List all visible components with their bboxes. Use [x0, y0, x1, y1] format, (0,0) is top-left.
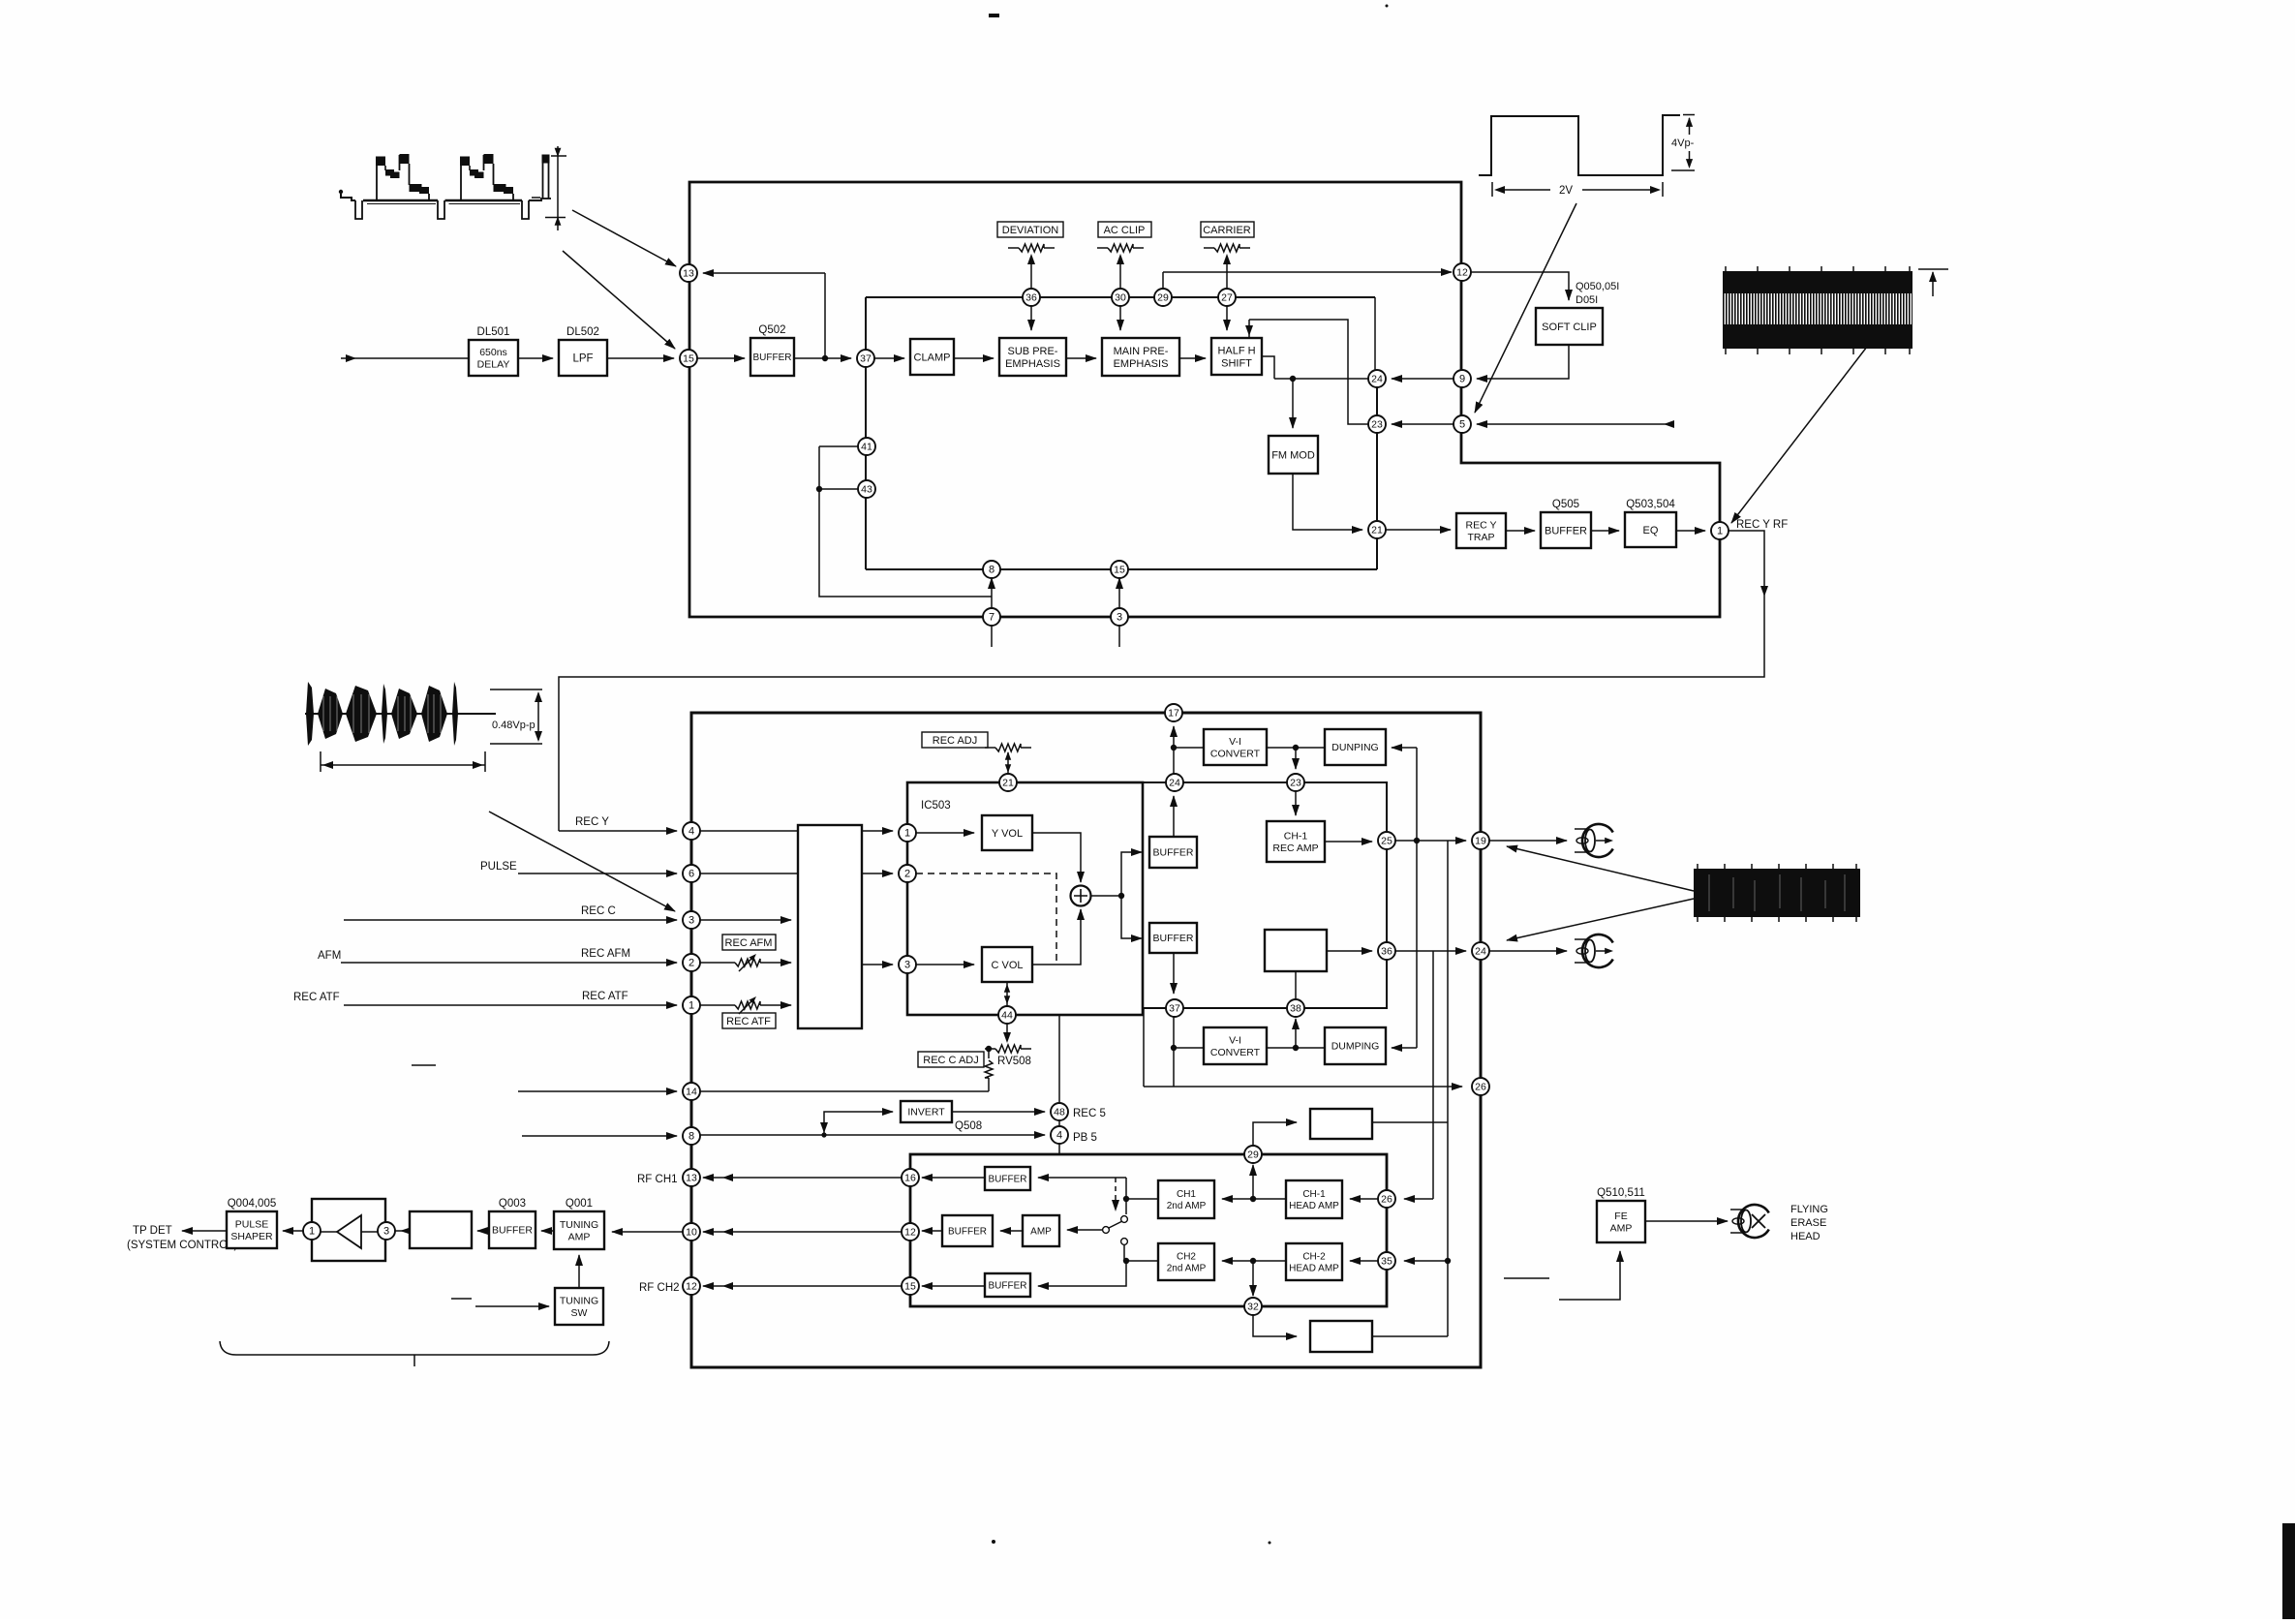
- svg-text:SW: SW: [571, 1307, 588, 1319]
- svg-text:REC AFM: REC AFM: [725, 937, 773, 949]
- wire Y VOL to adder: [1032, 833, 1081, 882]
- wire pin26 to head amp: [1350, 1198, 1378, 1200]
- svg-text:BUFFER: BUFFER: [753, 352, 792, 363]
- pin 3 top block: [1111, 608, 1128, 626]
- svg-text:BUFFER: BUFFER: [948, 1227, 987, 1238]
- svg-text:2: 2: [688, 958, 694, 969]
- svg-text:2nd AMP: 2nd AMP: [1167, 1201, 1207, 1211]
- wire clamp to sub pre-emphasis: [954, 357, 994, 359]
- pulse shaper Q004,005 box: [227, 1211, 277, 1248]
- svg-text:19: 19: [1475, 836, 1486, 847]
- wire pin10 to tuning amp: [612, 1231, 683, 1233]
- svg-text:INVERT: INVERT: [907, 1107, 945, 1118]
- wire pin3 to triangle: [361, 1231, 378, 1233]
- pin 10 lower block: [683, 1223, 700, 1241]
- wire PULSE into pin 6: [518, 873, 677, 874]
- pin 43 top block: [858, 480, 875, 498]
- wire IC pin3 to C VOL: [916, 964, 974, 965]
- svg-text:15: 15: [904, 1281, 916, 1293]
- svg-text:EMPHASIS: EMPHASIS: [1114, 358, 1169, 370]
- svg-text:Q510,511: Q510,511: [1597, 1187, 1645, 1199]
- svg-text:DL501: DL501: [477, 326, 510, 338]
- wire junction up to pin 17: [1173, 726, 1175, 748]
- svg-text:REC ATF: REC ATF: [293, 992, 340, 1003]
- wire pin up to CARRIER pot: [1226, 258, 1228, 289]
- wire into pin 14: [518, 1090, 677, 1092]
- wire pin9 to pin24: [1392, 378, 1453, 380]
- wire bus pins 24 23 21: [1376, 379, 1378, 569]
- wire 15 to RF CH2 pin 12: [703, 1285, 902, 1287]
- flying erase head: [1738, 1205, 1769, 1238]
- svg-text:Q505: Q505: [1552, 499, 1579, 510]
- wire to pin 26: [1144, 1086, 1462, 1088]
- pin 6 lower block: [683, 865, 700, 882]
- wire junction up to pin 29: [1252, 1165, 1254, 1199]
- wire sub to main pre-emphasis: [1066, 357, 1096, 359]
- svg-text:REC AFM: REC AFM: [581, 948, 630, 960]
- wire bus down to 26 line: [1143, 1008, 1145, 1087]
- wire pin21 to rec y trap: [1386, 529, 1451, 531]
- wire FM MOD to pin 21: [1293, 474, 1362, 530]
- svg-text:13: 13: [683, 268, 694, 280]
- svg-text:Q502: Q502: [758, 324, 785, 336]
- callout diagonal to pin 5: [1475, 203, 1576, 413]
- svg-text:DELAY: DELAY: [477, 358, 510, 370]
- waveform sync dip 2: [438, 200, 444, 219]
- svg-text:650ns: 650ns: [479, 347, 507, 358]
- svg-text:AMP: AMP: [1610, 1222, 1633, 1234]
- pin 29 top block: [1154, 289, 1172, 306]
- wire loop 23 to halfH: [1249, 320, 1368, 424]
- pin 8 lower block: [683, 1127, 700, 1145]
- svg-text:TRAP: TRAP: [1467, 532, 1494, 543]
- wire pin30 down to main pre-emphasis: [1119, 306, 1121, 330]
- svg-text:37: 37: [860, 353, 872, 365]
- wire junction up to pin13 feedback: [824, 273, 826, 358]
- wire tuning amp to buffer: [541, 1230, 554, 1232]
- pin 3 lower block: [899, 956, 916, 973]
- pin 35 lower block: [1378, 1252, 1395, 1270]
- svg-text:23: 23: [1290, 778, 1301, 789]
- svg-text:REC 5: REC 5: [1073, 1108, 1106, 1119]
- svg-text:PULSE: PULSE: [235, 1218, 268, 1230]
- REC Y TRAP box: [1456, 513, 1506, 548]
- svg-text:HALF H: HALF H: [1217, 345, 1255, 356]
- svg-text:CH2: CH2: [1177, 1252, 1196, 1263]
- svg-text:24: 24: [1169, 778, 1180, 789]
- wire V-I out: [1267, 747, 1296, 749]
- svg-text:CH-2: CH-2: [1302, 1252, 1326, 1263]
- svg-text:DUMPING: DUMPING: [1331, 1041, 1380, 1053]
- wire buffer mid to pin 12: [922, 1230, 942, 1232]
- svg-text:TP DET: TP DET: [133, 1225, 172, 1237]
- wire C VOL to pin 44: [1006, 982, 1008, 1006]
- svg-text:1: 1: [309, 1226, 315, 1238]
- pin 32 lower block: [1244, 1298, 1262, 1315]
- pin 24 lower block: [1166, 774, 1183, 791]
- svg-text:CH-1: CH-1: [1284, 830, 1308, 842]
- svg-text:15: 15: [683, 353, 694, 365]
- wire feedback into DUMPING lower: [1392, 1047, 1417, 1049]
- svg-text:BUFFER: BUFFER: [1545, 525, 1587, 536]
- svg-text:3: 3: [1117, 612, 1122, 624]
- wire DL501 to DL502: [518, 357, 553, 359]
- CH1 2nd amp box: [1158, 1180, 1214, 1218]
- trimmer pot DEVIATION: [1008, 247, 1019, 249]
- wire bus 21 24 23: [907, 781, 1388, 783]
- svg-text:FE: FE: [1614, 1210, 1627, 1222]
- LPF DL502 box: [559, 340, 607, 376]
- pin 44 lower block: [998, 1006, 1016, 1024]
- wire REC C into pin 3: [344, 919, 677, 921]
- svg-text:6: 6: [688, 869, 694, 880]
- pin 24 lower block: [1472, 942, 1489, 960]
- svg-text:(SYSTEM CONTROL): (SYSTEM CONTROL): [127, 1240, 238, 1251]
- svg-text:48: 48: [1054, 1107, 1065, 1118]
- pin 1 lower block: [899, 824, 916, 842]
- svg-text:EQ: EQ: [1643, 525, 1659, 536]
- FM RF waveform block: [1723, 271, 1912, 294]
- svg-text:38: 38: [1290, 1003, 1301, 1015]
- wire pin37 down: [1173, 1017, 1175, 1087]
- wire pin19 to head 1: [1489, 840, 1567, 842]
- wire pin27 down to half h shift: [1226, 306, 1228, 330]
- wire buffer to empty box: [477, 1230, 489, 1232]
- wire into sub pin 35: [1404, 1260, 1448, 1262]
- svg-text:3: 3: [904, 960, 910, 971]
- pin 36 top block: [1023, 289, 1040, 306]
- dash mark: [412, 1064, 436, 1066]
- svg-text:RV508: RV508: [997, 1056, 1031, 1067]
- svg-text:ERASE: ERASE: [1790, 1217, 1826, 1229]
- pin 38 lower block: [1287, 999, 1304, 1017]
- wire pin41 left: [819, 445, 858, 447]
- SOFT CLIP box: [1536, 308, 1603, 345]
- CH2 2nd amp box: [1158, 1243, 1214, 1280]
- waveform staircase cycle 1: [376, 158, 378, 200]
- svg-text:9: 9: [1459, 374, 1465, 385]
- svg-text:Q003: Q003: [499, 1198, 526, 1210]
- video head CH-1: [1582, 824, 1613, 857]
- pin 3 lower block: [683, 911, 700, 929]
- pin 30 top block: [1112, 289, 1129, 306]
- pin 3 detector: [378, 1222, 395, 1240]
- dimension 4Vp-: [1683, 114, 1695, 116]
- trimmer REC ADJ: [985, 747, 995, 749]
- RF envelope burst block: [1694, 869, 1860, 917]
- waveform baseline lead: [341, 193, 355, 200]
- callout diagonal to REC C pin 3: [489, 812, 675, 911]
- svg-text:Q050,05I: Q050,05I: [1576, 281, 1619, 292]
- label REC ADJ: [922, 732, 988, 748]
- CLAMP box: [910, 339, 954, 375]
- wire junction to V-I lower: [1174, 1047, 1204, 1049]
- pin 29 lower block: [1244, 1146, 1262, 1163]
- wire pin1 lead: [700, 1004, 724, 1006]
- wire pin24 up to junction: [1173, 748, 1175, 774]
- pin 13 lower block: [683, 1169, 700, 1186]
- pin 2 lower block: [899, 865, 916, 882]
- svg-text:1: 1: [688, 1000, 694, 1012]
- wire pin36 to pin24: [1395, 950, 1466, 952]
- svg-text:2nd AMP: 2nd AMP: [1167, 1264, 1207, 1274]
- svg-text:C VOL: C VOL: [991, 960, 1023, 971]
- svg-text:Q508: Q508: [955, 1120, 982, 1132]
- svg-text:37: 37: [1169, 1003, 1180, 1015]
- svg-text:CARRIER: CARRIER: [1203, 225, 1251, 236]
- svg-text:21: 21: [1371, 525, 1383, 536]
- wire empty box to pin 36: [1327, 950, 1372, 952]
- pin 37 lower block: [1166, 999, 1183, 1017]
- DUMPING lower box: [1325, 1027, 1386, 1064]
- waveform sync dip 1: [355, 200, 362, 219]
- svg-text:17: 17: [1168, 708, 1179, 720]
- callout diagonal RF to pin 24: [1507, 899, 1694, 940]
- delay DL501 box: [469, 340, 518, 376]
- svg-text:3: 3: [383, 1226, 389, 1238]
- wire pin43 left: [819, 488, 858, 490]
- wire into pin 5 from right: [1477, 423, 1674, 425]
- callout diagonal to pin 1: [1731, 322, 1886, 523]
- buffer RF2 box: [985, 1273, 1030, 1297]
- svg-text:Q001: Q001: [566, 1198, 593, 1210]
- pin 21 top block: [1368, 521, 1386, 538]
- pin 13 top block: [680, 264, 697, 282]
- wire pin8 to PB 5: [700, 1134, 1045, 1136]
- svg-text:DL502: DL502: [566, 326, 599, 338]
- pin 2 lower block: [683, 954, 700, 971]
- wire REC Y into pin 4: [559, 830, 677, 832]
- trimmer REC AFM: [724, 962, 735, 964]
- wire vertical B: [1447, 841, 1449, 1336]
- svg-text:36: 36: [1025, 292, 1037, 304]
- wire pin12 to soft clip: [1471, 272, 1569, 300]
- wire box2 out: [1372, 1335, 1448, 1337]
- wire pin up to AC CLIP pot: [1119, 258, 1121, 289]
- wire vertical A: [1432, 951, 1434, 1199]
- wire matrix to IC503 pin3: [862, 964, 893, 965]
- buffer lower box: [1149, 923, 1197, 953]
- wire into sub pin 26: [1404, 1198, 1433, 1200]
- svg-text:REC C ADJ: REC C ADJ: [923, 1055, 978, 1066]
- svg-text:BUFFER: BUFFER: [492, 1225, 533, 1237]
- tuning switch box: [555, 1288, 603, 1325]
- wire pin44 row: [907, 1014, 1059, 1016]
- waveform period dimension: [321, 764, 485, 766]
- pin 12 lower block: [683, 1277, 700, 1295]
- wire V-I lower out: [1267, 1047, 1296, 1049]
- DUNPING upper box: [1325, 729, 1386, 765]
- wire pot to pin21: [1007, 752, 1009, 774]
- wire loop down to pin 8: [819, 446, 992, 597]
- wire dashed PB path: [916, 873, 1056, 965]
- pin 15 top block: [680, 350, 697, 367]
- pin 1 lower block: [683, 996, 700, 1014]
- svg-text:FM MOD: FM MOD: [1271, 449, 1315, 461]
- waveform amplitude dimension: [551, 155, 566, 157]
- svg-text:Q503,504: Q503,504: [1626, 499, 1675, 510]
- svg-text:AFM: AFM: [318, 950, 341, 962]
- pin 12 top block: [1453, 263, 1471, 281]
- pin 16 lower block: [902, 1169, 919, 1186]
- detector empty box: [410, 1211, 472, 1248]
- wire head amp to CH2 2nd amp: [1222, 1260, 1286, 1262]
- V-I convert upper box: [1204, 729, 1267, 765]
- svg-text:BUFFER: BUFFER: [989, 1281, 1027, 1292]
- svg-text:3: 3: [688, 915, 694, 927]
- svg-text:PULSE: PULSE: [480, 861, 517, 873]
- wire stub below pin 7: [991, 626, 993, 647]
- pin 4 lower block: [1051, 1126, 1068, 1144]
- callout diagonal waveform to pin 13: [572, 210, 676, 266]
- Y VOL box: [982, 815, 1032, 850]
- buffer RF mid box: [942, 1215, 993, 1246]
- wire vertical bus through 37 41 43: [865, 297, 867, 569]
- resistor RV508 leg: [985, 1060, 993, 1078]
- wire pin bus 36 30 29 27: [866, 296, 1375, 298]
- svg-text:SOFT CLIP: SOFT CLIP: [1542, 322, 1597, 333]
- wire empty box to pin 3: [401, 1230, 410, 1232]
- CH-1 head amp box: [1286, 1180, 1342, 1218]
- wire stub below pin 3: [1118, 626, 1120, 647]
- svg-text:12: 12: [686, 1281, 697, 1293]
- svg-text:Y VOL: Y VOL: [992, 828, 1023, 840]
- IC501 top block outline: [689, 182, 1720, 617]
- wire pin24 to head 2: [1489, 950, 1567, 952]
- svg-text:21: 21: [1002, 778, 1014, 789]
- IC503 box: [907, 782, 1143, 1015]
- FM MOD box: [1269, 436, 1318, 474]
- wire pin29 to rotary box1: [1253, 1122, 1297, 1146]
- wire switch to amp: [1067, 1229, 1102, 1231]
- buffer Q003 box: [489, 1211, 535, 1248]
- wire junction to dunping: [1296, 747, 1325, 749]
- wire feedback into pin 13: [703, 272, 825, 274]
- wire pin29 up: [1162, 272, 1164, 289]
- wire pin29 to pin12: [1163, 271, 1452, 273]
- svg-text:REC Y: REC Y: [1466, 519, 1497, 531]
- waveform baseline: [305, 713, 496, 715]
- wire 12 to pin 10: [703, 1231, 902, 1233]
- svg-text:DUNPING: DUNPING: [1331, 742, 1378, 753]
- callout diagonal waveform to pin 15: [563, 251, 675, 349]
- wire REC AFM into pin 2: [341, 962, 677, 964]
- trimmer pot CARRIER: [1204, 247, 1214, 249]
- svg-text:1: 1: [1717, 526, 1723, 537]
- svg-text:REC AMP: REC AMP: [1272, 843, 1318, 854]
- wire tuning sw to tuning amp: [578, 1255, 580, 1288]
- wire to pin 24: [1274, 378, 1368, 380]
- dimension 2V: [1491, 182, 1493, 197]
- wire junction down to pin 23: [1295, 748, 1297, 769]
- label REC C ADJ: [918, 1052, 984, 1067]
- wire triangle to pin1: [321, 1231, 337, 1233]
- callout diagonal RF to pin 19: [1507, 846, 1694, 891]
- pin 19 lower block: [1472, 832, 1489, 849]
- wire pin36 down to sub pre-emphasis: [1030, 306, 1032, 330]
- pin 15 lower block: [902, 1277, 919, 1295]
- svg-text:24: 24: [1475, 946, 1486, 958]
- wire INVERT to REC 5: [952, 1111, 1045, 1113]
- pin 9 top block: [1453, 370, 1471, 387]
- rotary transformer box1: [1310, 1109, 1372, 1139]
- svg-text:TUNING: TUNING: [560, 1295, 598, 1306]
- pin 24 top block: [1368, 370, 1386, 387]
- pin 41 top block: [858, 438, 875, 455]
- wire buffer RF2 to pin 15: [922, 1285, 985, 1287]
- buffer Q502 box: [750, 338, 794, 376]
- svg-text:24: 24: [1371, 374, 1383, 385]
- wire amp to buffer mid: [1000, 1230, 1023, 1232]
- trimmer RV508: [985, 1048, 995, 1050]
- waveform baseline end: [529, 199, 542, 201]
- pin 48 lower block: [1051, 1103, 1068, 1120]
- wire pin7 up: [991, 597, 993, 608]
- svg-text:HEAD AMP: HEAD AMP: [1289, 1201, 1339, 1211]
- rotary transformer box2: [1310, 1321, 1372, 1352]
- svg-text:36: 36: [1381, 946, 1392, 958]
- C VOL box: [982, 947, 1032, 982]
- wire bus down to pin 24: [1374, 297, 1376, 379]
- svg-text:AMP: AMP: [568, 1231, 591, 1242]
- svg-text:TUNING: TUNING: [560, 1219, 598, 1231]
- wire pin32 to rotary box2: [1253, 1315, 1297, 1336]
- svg-text:15: 15: [1114, 565, 1125, 576]
- CH-2 head amp box: [1286, 1243, 1342, 1280]
- wire buffer to pin 37: [794, 357, 851, 359]
- svg-text:MAIN PRE-: MAIN PRE-: [1114, 346, 1169, 357]
- svg-text:Q004,005: Q004,005: [228, 1198, 277, 1210]
- svg-text:HEAD AMP: HEAD AMP: [1289, 1264, 1339, 1274]
- wire pin6 to IC503 pin2: [700, 873, 893, 874]
- wire pin4 to IC503 pin1: [700, 830, 893, 832]
- dash mark: [451, 1298, 472, 1300]
- svg-text:16: 16: [904, 1173, 916, 1184]
- wire pin up to DEVIATION pot: [1030, 258, 1032, 289]
- wire pin2 lead: [700, 962, 724, 964]
- svg-text:REC ATF: REC ATF: [726, 1016, 771, 1027]
- trimmer REC ATF: [724, 1004, 735, 1006]
- pin 15 top block: [1111, 561, 1128, 578]
- svg-text:29: 29: [1157, 292, 1169, 304]
- wire junction to V-I convert: [1174, 747, 1204, 749]
- pin 21 lower block: [999, 774, 1017, 791]
- svg-text:35: 35: [1381, 1256, 1392, 1268]
- mixer empty box: [1265, 930, 1327, 971]
- wire CH2 2nd amp out: [1126, 1260, 1158, 1262]
- svg-text:4: 4: [688, 826, 694, 838]
- wire junction down to FM MOD: [1292, 379, 1294, 428]
- svg-text:RF CH1: RF CH1: [637, 1174, 678, 1185]
- label REC AFM: [722, 935, 776, 950]
- wire pin5 to pin23: [1392, 423, 1453, 425]
- svg-text:25: 25: [1381, 836, 1392, 847]
- wire trap to buffer Q505: [1506, 530, 1535, 532]
- wire C VOL to adder: [1032, 909, 1081, 965]
- head switching sub box: [910, 1154, 1387, 1306]
- pin 36 lower block: [1378, 942, 1395, 960]
- pin 1 top block: [1711, 522, 1729, 539]
- trimmer pot AC CLIP: [1097, 247, 1108, 249]
- pin 1 detector: [303, 1222, 321, 1240]
- wire pin3 to matrix box: [700, 919, 791, 921]
- buffer upper box: [1149, 837, 1197, 868]
- dash segment: [1504, 1277, 1549, 1279]
- pin 17 lower block: [1165, 704, 1182, 721]
- amp box: [1023, 1215, 1059, 1246]
- svg-text:30: 30: [1115, 292, 1126, 304]
- pin 23 top block: [1368, 415, 1386, 433]
